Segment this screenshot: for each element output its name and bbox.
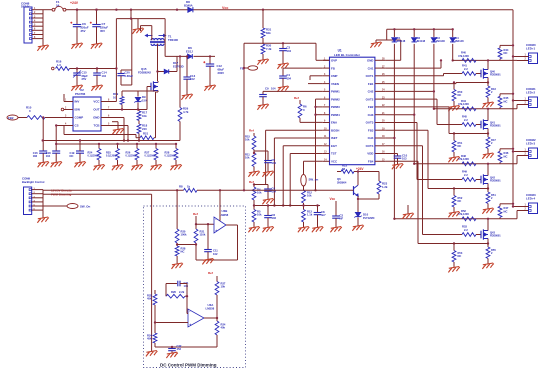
svg-text:100k: 100k <box>181 233 187 237</box>
svg-text:0.1(1206): 0.1(1206) <box>88 155 98 158</box>
svg-text:25V: 25V <box>82 77 87 81</box>
svg-text:104: 104 <box>102 74 107 78</box>
svg-text:45k: 45k <box>147 297 152 301</box>
svg-text:R48: R48 <box>461 154 466 158</box>
svg-text:IN4148: IN4148 <box>436 39 445 43</box>
svg-text:LED BL Controller: LED BL Controller <box>334 53 361 57</box>
svg-text:200V: 200V <box>218 71 225 75</box>
svg-text:OUT3: OUT3 <box>366 121 374 125</box>
svg-text:ISW: ISW <box>75 108 81 112</box>
svg-text:TCB: TCB <box>94 124 100 128</box>
svg-text:EGP10D: EGP10D <box>173 65 184 69</box>
svg-text:1.0: 1.0 <box>57 63 61 67</box>
svg-text:SW_On: SW_On <box>80 204 91 208</box>
svg-text:IN4148: IN4148 <box>417 39 426 43</box>
svg-text:47k,1206: 47k,1206 <box>458 102 469 106</box>
svg-text:COMP: COMP <box>75 116 84 120</box>
svg-text:103: 103 <box>184 284 189 288</box>
svg-text:TST: TST <box>331 152 337 156</box>
svg-text:EGT: EGT <box>331 144 337 148</box>
svg-text:C9: C9 <box>265 87 269 91</box>
svg-text:OUT2: OUT2 <box>366 97 374 101</box>
svg-text:SW_on: SW_on <box>309 177 319 181</box>
svg-text:NC: NC <box>504 154 508 158</box>
svg-text:104: 104 <box>271 87 276 91</box>
svg-text:NC: NC <box>458 254 462 258</box>
svg-text:2.2: 2.2 <box>464 67 468 71</box>
svg-text:PWM3: PWM3 <box>331 105 340 109</box>
svg-text:CON9: CON9 <box>22 176 30 180</box>
svg-text:IN4148: IN4148 <box>455 39 464 43</box>
svg-text:CH2: CH2 <box>368 90 374 94</box>
svg-text:102: 102 <box>213 252 218 256</box>
svg-text:110k: 110k <box>200 233 206 237</box>
svg-text:D9: D9 <box>142 95 146 99</box>
svg-text:104: 104 <box>46 154 51 158</box>
svg-text:C3: C3 <box>287 45 291 49</box>
svg-text:DC Control PWM Dimming: DC Control PWM Dimming <box>160 362 217 367</box>
svg-text:C15: C15 <box>82 70 88 74</box>
svg-text:47k,1206: 47k,1206 <box>458 212 469 216</box>
svg-text:CMP: CMP <box>331 74 337 78</box>
svg-text:35V: 35V <box>100 29 105 33</box>
svg-text:R45: R45 <box>462 115 467 119</box>
svg-text:R21: R21 <box>143 131 149 135</box>
svg-text:VCC: VCC <box>331 160 338 164</box>
svg-text:NC: NC <box>458 199 462 203</box>
svg-text:10k: 10k <box>142 114 147 118</box>
svg-text:FDD8601: FDD8601 <box>490 235 501 238</box>
svg-text:R44: R44 <box>461 99 466 103</box>
svg-text:ENA: ENA <box>331 121 338 125</box>
svg-text:68pF: 68pF <box>82 74 89 78</box>
svg-text:IN4148: IN4148 <box>397 39 406 43</box>
svg-text:7.3k: 7.3k <box>266 47 272 51</box>
svg-text:0.68uF: 0.68uF <box>125 74 134 78</box>
svg-text:FDD8601: FDD8601 <box>490 180 501 183</box>
svg-text:Ref: Ref <box>294 96 299 100</box>
svg-text:R40: R40 <box>461 50 466 54</box>
svg-text:PWM1: PWM1 <box>331 90 340 94</box>
svg-text:0.1(1206): 0.1(1206) <box>106 155 116 158</box>
svg-text:NC: NC <box>70 154 74 158</box>
svg-text:35V: 35V <box>81 29 86 33</box>
svg-text:FB2: FB2 <box>8 116 14 120</box>
svg-text:Ref: Ref <box>208 271 213 275</box>
svg-text:Q6: Q6 <box>337 177 341 181</box>
svg-text:240: 240 <box>142 127 147 131</box>
svg-text:102: 102 <box>190 77 195 81</box>
svg-text:NC: NC <box>458 93 462 97</box>
svg-text:Vcc: Vcc <box>330 197 336 201</box>
svg-text:47k,1206: 47k,1206 <box>458 54 469 58</box>
svg-text:Vcc: Vcc <box>222 6 228 10</box>
svg-text:2.2: 2.2 <box>464 228 468 232</box>
svg-text:182: 182 <box>33 154 38 158</box>
svg-text:VCC: VCC <box>93 100 100 104</box>
svg-text:45k: 45k <box>147 337 152 341</box>
svg-text:2.2: 2.2 <box>464 118 468 122</box>
svg-text:BOSH: BOSH <box>331 128 339 132</box>
svg-text:0.1(1206): 0.1(1206) <box>165 155 175 158</box>
svg-text:+: + <box>189 323 191 327</box>
svg-text:FDS86242: FDS86242 <box>138 70 151 74</box>
svg-text:40k: 40k <box>221 326 226 330</box>
svg-text:LED+2: LED+2 <box>526 91 535 95</box>
svg-text:2.2: 2.2 <box>464 173 468 177</box>
svg-text:FDD8601: FDD8601 <box>490 74 501 77</box>
svg-text:104: 104 <box>272 161 277 165</box>
svg-text:+: + <box>215 229 217 233</box>
svg-text:C1: C1 <box>287 73 291 77</box>
svg-text:NF: NF <box>340 217 344 221</box>
svg-text:CH4: CH4 <box>368 136 374 140</box>
svg-text:10k: 10k <box>307 194 312 198</box>
svg-text:PS4766: PS4766 <box>75 92 86 96</box>
svg-text:5A: 5A <box>56 4 60 8</box>
svg-text:PLT12MC: PLT12MC <box>363 216 375 220</box>
svg-text:FB4: FB4 <box>368 160 374 164</box>
svg-text:OUT4: OUT4 <box>366 144 374 148</box>
svg-text:0.1(1206): 0.1(1206) <box>145 155 155 158</box>
svg-text:Q15: Q15 <box>141 67 147 71</box>
svg-text:FDD8601: FDD8601 <box>490 125 501 128</box>
svg-text:CS: CS <box>75 124 79 128</box>
svg-text:Ref: Ref <box>249 129 254 133</box>
svg-text:FB: FB <box>331 66 335 70</box>
svg-text:47k,1206: 47k,1206 <box>458 157 469 161</box>
svg-text:R53: R53 <box>462 225 467 229</box>
svg-text:OUT: OUT <box>93 108 99 112</box>
svg-text:LED+1: LED+1 <box>526 47 535 51</box>
svg-text:NC: NC <box>504 99 508 103</box>
svg-text:NC: NC <box>181 250 185 254</box>
svg-text:R26: R26 <box>171 290 176 294</box>
svg-text:OUT1: OUT1 <box>366 74 374 78</box>
svg-text:102: 102 <box>272 216 277 220</box>
svg-text:R8: R8 <box>179 184 183 188</box>
svg-text:VSEN: VSEN <box>331 82 339 86</box>
svg-text:10k: 10k <box>257 213 262 217</box>
svg-text:10k: 10k <box>245 156 250 160</box>
svg-text:OVP: OVP <box>331 59 337 63</box>
svg-text:PWM4: PWM4 <box>331 113 340 117</box>
svg-text:LED+4: LED+4 <box>526 197 535 201</box>
svg-text:452: 452 <box>177 347 182 351</box>
svg-text:1.2k: 1.2k <box>382 185 388 189</box>
svg-text:FB2: FB2 <box>368 105 374 109</box>
svg-text:2.2k: 2.2k <box>179 290 185 294</box>
svg-text:INV: INV <box>75 100 80 104</box>
svg-text:Ref: Ref <box>249 180 254 184</box>
svg-text:103: 103 <box>402 157 407 161</box>
svg-text:1k: 1k <box>187 184 191 188</box>
svg-text:104: 104 <box>287 49 292 53</box>
svg-text:LM358: LM358 <box>206 307 215 311</box>
svg-text:1.1k: 1.1k <box>307 213 313 217</box>
svg-text:ISET: ISET <box>331 136 338 140</box>
svg-text:NC: NC <box>504 51 508 55</box>
svg-text:15V: 15V <box>142 99 147 103</box>
svg-text:LED+3: LED+3 <box>526 142 535 146</box>
svg-text:PWM2: PWM2 <box>331 97 340 101</box>
svg-text:GND: GND <box>93 116 99 120</box>
svg-text:10k: 10k <box>221 285 226 289</box>
svg-text:10k: 10k <box>257 191 262 195</box>
svg-text:Ref: Ref <box>193 212 198 216</box>
svg-text:104: 104 <box>287 77 292 81</box>
svg-text:R52: R52 <box>461 209 466 213</box>
svg-text:D17: D17 <box>173 61 179 65</box>
svg-text:CH3: CH3 <box>368 113 374 117</box>
svg-text:10k: 10k <box>245 138 250 142</box>
svg-text:4n7: 4n7 <box>321 213 326 217</box>
svg-text:U1: U1 <box>338 48 342 52</box>
svg-text:FB1: FB1 <box>368 82 374 86</box>
svg-text:LM358: LM358 <box>220 213 229 217</box>
svg-text:ES1J: ES1J <box>186 49 193 53</box>
svg-text:84k: 84k <box>266 31 271 35</box>
svg-text:NC: NC <box>504 209 508 213</box>
svg-text:2N3904: 2N3904 <box>337 180 347 184</box>
svg-text:TR0406: TR0406 <box>168 38 178 42</box>
svg-text:Backlight Control: Backlight Control <box>22 180 45 184</box>
svg-text:CH1: CH1 <box>368 66 374 70</box>
svg-text:GND: GND <box>367 59 373 63</box>
svg-text:FB3: FB3 <box>368 128 374 132</box>
svg-text:R49: R49 <box>462 170 467 174</box>
svg-text:NC: NC <box>458 144 462 148</box>
svg-text:+24V: +24V <box>70 1 79 5</box>
svg-text:C14: C14 <box>102 70 108 74</box>
svg-text:0.1(1206): 0.1(1206) <box>126 155 136 158</box>
svg-text:R41: R41 <box>462 64 467 68</box>
svg-text:VDD: VDD <box>367 152 373 156</box>
svg-text:4.7k: 4.7k <box>183 110 189 114</box>
